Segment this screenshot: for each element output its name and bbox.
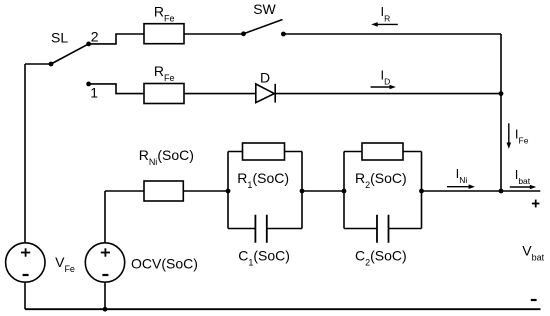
wire node 2 to R_Fe (upper) — [89, 34, 144, 44]
capacitor C1(SoC) plates — [255, 215, 266, 243]
node loop2 right junction — [419, 189, 424, 194]
diode D cathode bar — [274, 84, 276, 103]
wire loop2 to battery + terminal — [422, 190, 541, 192]
V_Fe minus sign — [23, 274, 29, 276]
battery minus terminal sign — [531, 299, 537, 301]
RC loop 2 left vertical — [343, 152, 345, 229]
node 1 terminal — [86, 82, 91, 87]
wire R_Ni to RC loop 1 — [184, 190, 229, 192]
resistor R_Fe upper box — [144, 24, 184, 44]
wire R_Fe to SW — [184, 33, 244, 35]
wire OCV bottom lead — [104, 282, 106, 309]
RC loop 2 top wire segments — [344, 151, 422, 153]
wire diode to right vertical — [275, 93, 501, 95]
RC loop 2 bottom wire segments — [344, 228, 422, 230]
node loop1 right junction — [300, 189, 305, 194]
wire right vertical down to node bat — [500, 34, 502, 191]
current arrow I_Ni (pointing right) — [447, 184, 475, 189]
svg-text:SL: SL — [51, 29, 68, 45]
current arrow I_D (pointing right) — [371, 85, 396, 90]
node SW right terminal — [281, 32, 286, 37]
svg-text:1: 1 — [90, 85, 98, 101]
capacitor C2(SoC) plates — [377, 215, 389, 243]
svg-text:2: 2 — [91, 29, 99, 45]
node I_Fe junction — [499, 189, 504, 194]
node diode branch junction — [499, 91, 504, 96]
wire OCV top lead — [104, 191, 106, 243]
RC loop 1 top wire segments — [228, 151, 302, 153]
voltage source V_Fe circle — [6, 243, 45, 282]
node 2 terminal — [86, 42, 91, 47]
current arrow I_R (pointing left) — [371, 22, 398, 27]
V_Fe plus sign — [21, 248, 30, 256]
RC loop 1 left vertical — [227, 152, 229, 229]
wire V_Fe bottom lead — [24, 282, 26, 309]
battery plus terminal sign — [532, 200, 540, 208]
RC loop 1 right vertical — [301, 152, 303, 229]
current arrow I_bat (pointing right) — [510, 185, 536, 190]
current arrow I_Fe (pointing down) — [507, 123, 512, 149]
OCV minus sign — [102, 274, 108, 276]
RC loop 1 bottom wire segments — [228, 228, 302, 230]
wire SL pole horizontal — [25, 63, 51, 65]
svg-text:SW: SW — [253, 1, 276, 17]
resistor R2(SoC) box — [362, 143, 403, 160]
svg-text:D: D — [260, 70, 270, 86]
switch SW blade (open) — [244, 20, 283, 34]
wire loop1 to loop2 — [302, 190, 344, 192]
voltage source OCV(SoC) circle — [85, 243, 124, 282]
diode D triangle — [256, 84, 274, 103]
wire node 1 to R_Fe (lower) — [89, 84, 144, 94]
resistor R_Ni(SoC) box — [144, 181, 183, 201]
resistor R_Fe lower box — [144, 84, 184, 104]
node SW left terminal — [241, 31, 246, 36]
wire OCV to R_Ni — [105, 190, 144, 192]
svg-text:OCV(SoC): OCV(SoC) — [131, 256, 198, 272]
wire SW right terminal to top-right corner — [283, 33, 501, 35]
wire left vertical from SL pole down to V_Fe — [24, 64, 26, 243]
node bottom rail junction — [103, 307, 108, 312]
node loop2 left junction — [342, 189, 347, 194]
node loop1 left junction — [226, 189, 231, 194]
RC loop 2 right vertical — [421, 152, 423, 229]
node SL pole junction — [49, 62, 54, 67]
wire R_Fe to diode D — [184, 93, 256, 95]
OCV plus sign — [101, 248, 110, 256]
resistor R1(SoC) box — [243, 143, 285, 160]
wire bottom rail — [25, 308, 541, 310]
switch SL blade (closed to position 2) — [51, 44, 89, 64]
